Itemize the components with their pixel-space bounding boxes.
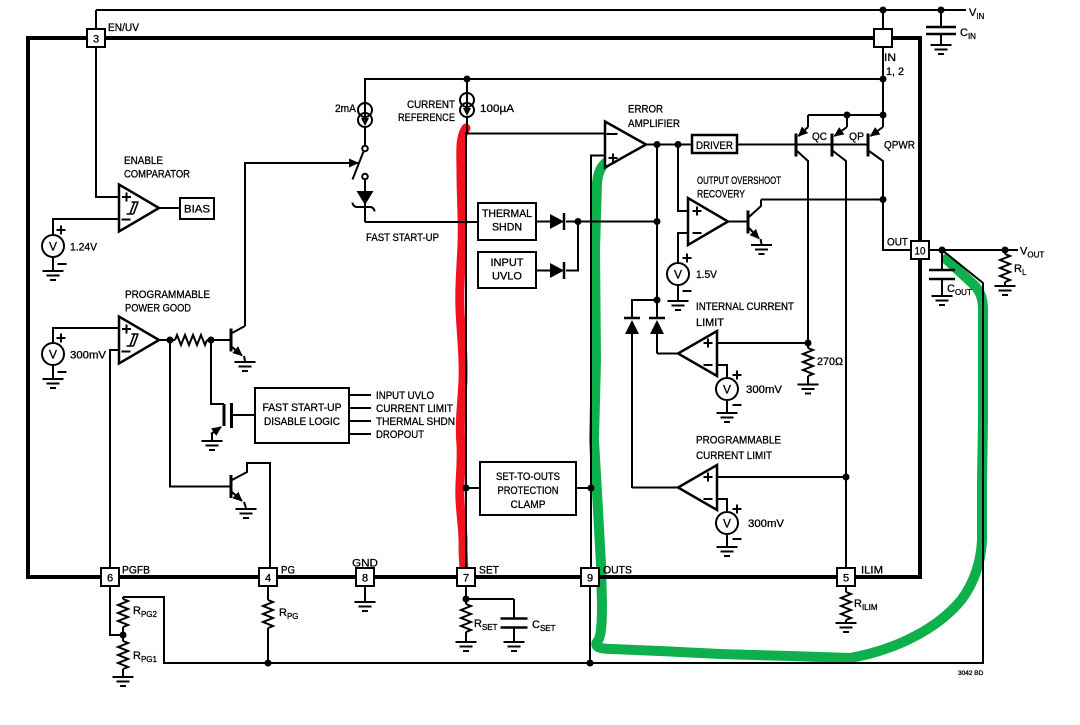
pin 9 OUTS bbox=[581, 568, 599, 586]
resistor RPG1 bbox=[118, 641, 128, 676]
svg-text:ERROR: ERROR bbox=[628, 104, 663, 116]
svg-text:7: 7 bbox=[463, 573, 469, 585]
pin IN 1,2 bbox=[874, 29, 892, 47]
wire PGFB sense to PG comparator minus input bbox=[110, 350, 119, 568]
wire error amp output to overshoot recovery plus input bbox=[678, 145, 688, 212]
ground CSET bbox=[504, 642, 525, 651]
ground V2 bbox=[43, 379, 64, 388]
wire schottky to thermal shdn block bbox=[365, 221, 478, 223]
ground V1 bbox=[43, 271, 64, 280]
ground Q2 emitter bbox=[236, 509, 257, 518]
IC outline border bbox=[28, 38, 920, 577]
svg-text:300mV: 300mV bbox=[748, 518, 785, 530]
svg-text:AMPLIFIER: AMPLIFIER bbox=[628, 118, 680, 130]
svg-text:INPUT UVLO: INPUT UVLO bbox=[376, 390, 434, 402]
svg-text:QC: QC bbox=[812, 131, 827, 143]
svg-text:BIAS: BIAS bbox=[184, 204, 210, 216]
block INPUT UVLO bbox=[478, 252, 536, 288]
wire clamp diode line bbox=[566, 221, 657, 223]
svg-text:9: 9 bbox=[587, 573, 593, 585]
svg-text:UVLO: UVLO bbox=[492, 271, 522, 283]
wire error amp output to driver bbox=[646, 144, 692, 146]
voltage source V4 300mV bbox=[716, 378, 738, 400]
svg-text:GND: GND bbox=[352, 558, 378, 570]
current source 100uA current reference bbox=[460, 79, 474, 117]
node RL junction bbox=[1002, 247, 1009, 254]
wire SET node vertical (100uA to pin 7) bbox=[466, 117, 467, 568]
svg-text:10: 10 bbox=[915, 246, 926, 258]
svg-text:2mA: 2mA bbox=[335, 103, 357, 115]
op-amp programmable current limit bbox=[678, 465, 717, 510]
ground M1 source bbox=[202, 441, 223, 450]
svg-text:1.24V: 1.24V bbox=[70, 242, 98, 254]
svg-text:EN/UV: EN/UV bbox=[108, 22, 140, 34]
node PGFB divider tap bbox=[120, 632, 127, 639]
svg-text:4: 4 bbox=[265, 573, 271, 585]
svg-text:IN: IN bbox=[884, 52, 896, 64]
diode D2 (thermal shdn) bbox=[536, 213, 564, 230]
voltage source V1 1.24V bbox=[42, 235, 64, 257]
transistor M1 (MOSFET, fast start-up disable) bbox=[211, 403, 255, 440]
svg-text:6: 6 bbox=[107, 573, 113, 585]
svg-text:DRIVER: DRIVER bbox=[696, 140, 733, 152]
transistor Q1 (NPN, PG pull) bbox=[231, 326, 245, 361]
ground RSET bbox=[456, 642, 477, 651]
wire PGFB pin to divider tap bbox=[110, 586, 123, 635]
svg-text:FAST START-UP: FAST START-UP bbox=[263, 402, 342, 414]
svg-text:1, 2: 1, 2 bbox=[886, 66, 904, 78]
transistor Q2 (NPN, PG open collector) bbox=[231, 463, 270, 568]
op-amp output overshoot recovery bbox=[688, 198, 728, 245]
capacitor CIN bbox=[926, 10, 956, 45]
wire logic output stub DROPOUT bbox=[349, 433, 371, 435]
diode D4 (clamp to internal current limit) bbox=[624, 318, 640, 488]
wire comparator output to BIAS bbox=[159, 207, 180, 209]
wire OUT pin to VOUT bbox=[929, 249, 1018, 251]
node PG resistor junction A bbox=[167, 337, 174, 344]
svg-text:270Ω: 270Ω bbox=[817, 356, 843, 368]
wire pin3 top stub bbox=[95, 10, 97, 29]
wire internal current limit minus to 300mV bbox=[717, 365, 727, 378]
node ILIM junction bbox=[843, 474, 850, 481]
resistor 270ohm bbox=[803, 343, 813, 384]
block DRIVER bbox=[692, 135, 737, 153]
svg-text:QPWR: QPWR bbox=[884, 140, 915, 152]
wire 300mV to PG comparator plus input bbox=[53, 328, 119, 343]
wire node down to M1 drain bbox=[211, 340, 224, 404]
svg-text:THERMAL: THERMAL bbox=[482, 208, 532, 220]
switch fast start-up bbox=[353, 146, 368, 180]
op-amp programmable power good comparator bbox=[119, 317, 159, 364]
wire IN vertical to QPWR emitter bbox=[882, 79, 884, 127]
svg-text:POWER GOOD: POWER GOOD bbox=[125, 303, 191, 315]
node SET clamp junction bbox=[463, 485, 470, 492]
svg-text:PGFB: PGFB bbox=[122, 565, 150, 577]
wire IN pin top stub bbox=[882, 10, 884, 29]
transistor Q3 (NPN, overshoot recovery) bbox=[748, 200, 762, 245]
wire 1.24V to comparator minus input bbox=[53, 219, 119, 235]
transistor QP (PNP) bbox=[832, 115, 847, 568]
pin 10 OUT bbox=[911, 241, 929, 259]
voltage source V5 300mV bbox=[716, 512, 738, 534]
svg-text:CURRENT: CURRENT bbox=[407, 99, 455, 111]
ground CIN bbox=[931, 45, 952, 54]
svg-text:LIMIT: LIMIT bbox=[696, 317, 724, 329]
wire resistor to Q1 base bbox=[207, 339, 230, 341]
ground 270ohm bbox=[798, 385, 819, 394]
wire 2mA to switch bbox=[364, 127, 366, 146]
svg-text:REFERENCE: REFERENCE bbox=[398, 112, 455, 124]
svg-text:QP: QP bbox=[849, 131, 864, 143]
svg-text:DISABLE LOGIC: DISABLE LOGIC bbox=[264, 416, 340, 428]
pin 5 ILIM bbox=[837, 568, 855, 586]
pin 6 PGFB bbox=[101, 568, 119, 586]
wire programmable current limit minus to 300mV bbox=[717, 499, 727, 512]
svg-text:OUT: OUT bbox=[887, 237, 908, 249]
svg-text:INTERNAL CURRENT: INTERNAL CURRENT bbox=[696, 301, 794, 313]
voltage source V3 1.5V bbox=[667, 263, 689, 285]
pin 8 GND bbox=[356, 568, 374, 586]
wire PG comparator output bbox=[159, 339, 175, 341]
wire programmable current limit output to D4 bbox=[632, 487, 678, 490]
node emitter rail QP junction bbox=[844, 112, 851, 119]
ground V4 bbox=[717, 413, 738, 422]
svg-text:8: 8 bbox=[362, 573, 368, 585]
node emitter rail QPWR junction bbox=[880, 112, 887, 119]
svg-text:OUTPUT OVERSHOOT: OUTPUT OVERSHOOT bbox=[697, 175, 781, 187]
node VIN/IN junction bbox=[880, 7, 887, 14]
wire pin3 down to enable comparator bbox=[96, 47, 119, 197]
ground Q1 emitter bbox=[235, 362, 256, 371]
wire programmable current limit plus input to ILIM node bbox=[717, 476, 846, 478]
ground pin8 GND bbox=[364, 586, 366, 601]
svg-text:SHDN: SHDN bbox=[492, 222, 522, 234]
node RSET/CSET junction bbox=[463, 596, 470, 603]
node OUTS bottom junction bbox=[587, 660, 594, 667]
svg-text:SET: SET bbox=[479, 565, 499, 577]
node PG resistor junction B bbox=[208, 337, 215, 344]
svg-text:CURRENT LIMIT: CURRENT LIMIT bbox=[696, 450, 772, 462]
capacitor CSET bbox=[466, 599, 528, 641]
svg-text:PG: PG bbox=[281, 565, 295, 577]
node error amp output junction B bbox=[675, 141, 682, 148]
wire logic output stub INPUT UVLO bbox=[349, 394, 371, 396]
wire OUTS pin to bottom sense rail bbox=[589, 586, 591, 663]
svg-text:100µA: 100µA bbox=[480, 103, 515, 115]
wire VIN top rail bbox=[96, 9, 966, 11]
op-amp error amplifier bbox=[605, 122, 646, 168]
block BIAS bbox=[180, 198, 214, 219]
resistor RPG bbox=[263, 586, 273, 663]
wire switch to schottky diode bbox=[364, 180, 366, 192]
svg-text:DROPOUT: DROPOUT bbox=[376, 429, 424, 441]
svg-text:OUTS: OUTS bbox=[603, 565, 632, 577]
wire Q3 collector to QPWR collector node bbox=[761, 199, 883, 201]
node 270ohm junction bbox=[805, 340, 812, 347]
wire IN pin bottom stub bbox=[882, 47, 884, 79]
svg-text:5: 5 bbox=[843, 573, 849, 585]
green marker highlight (OUTS sense path) bbox=[594, 159, 983, 658]
wire internal current limit plus input to 270 node bbox=[717, 342, 808, 344]
diode D5 (clamp to programmable current limit) bbox=[649, 300, 665, 354]
svg-text:ENABLE: ENABLE bbox=[124, 155, 163, 167]
node IN rail junction bbox=[880, 76, 887, 83]
pin 7 SET bbox=[457, 568, 475, 586]
wire OUTS vertical (error amp plus input to pin 9) bbox=[591, 156, 605, 569]
node VIN/CIN junction bbox=[938, 7, 945, 14]
resistor RPG2 bbox=[118, 597, 128, 641]
wire error amp output clamp vertical bbox=[656, 145, 658, 301]
svg-text:CLAMP: CLAMP bbox=[511, 499, 546, 511]
svg-text:INPUT: INPUT bbox=[491, 257, 524, 269]
diode D3 (input uvlo) bbox=[536, 222, 578, 280]
ground V5 bbox=[717, 547, 738, 556]
ground RPG1 bbox=[113, 677, 134, 686]
resistor RL bbox=[1000, 250, 1010, 285]
svg-text:3: 3 bbox=[93, 34, 99, 46]
current source 2mA bbox=[358, 103, 372, 127]
svg-text:300mV: 300mV bbox=[746, 384, 783, 396]
op-amp enable comparator bbox=[119, 185, 159, 232]
svg-text:CURRENT LIMIT: CURRENT LIMIT bbox=[376, 403, 453, 415]
svg-text:RECOVERY: RECOVERY bbox=[697, 189, 746, 201]
node RPG bottom junction bbox=[265, 660, 272, 667]
node clamp line junction bbox=[654, 218, 661, 225]
node COUT junction bbox=[939, 247, 946, 254]
svg-text:1.5V: 1.5V bbox=[696, 269, 718, 281]
wire SET node to error amp minus input bbox=[466, 133, 605, 135]
node OUTS clamp junction bbox=[588, 485, 595, 492]
block fast start-up disable logic bbox=[255, 388, 349, 443]
ground RILIM bbox=[836, 623, 857, 632]
ground V3 bbox=[668, 301, 689, 310]
wire QPWR collector to OUT pin bbox=[883, 200, 911, 251]
wire D5 to internal current limit output bbox=[657, 353, 678, 355]
wire logic output stub THERMAL SHDN bbox=[349, 420, 371, 422]
wire overshoot recovery minus to 1.5V bbox=[678, 233, 688, 263]
resistor RILIM bbox=[841, 586, 851, 622]
svg-text:PROGRAMMABLE: PROGRAMMABLE bbox=[125, 289, 210, 301]
transistor QC (PNP) bbox=[796, 115, 808, 343]
svg-text:PROGRAMMABLE: PROGRAMMABLE bbox=[696, 435, 781, 447]
wire OUTS sense from output node bbox=[123, 250, 983, 663]
block THERMAL SHDN bbox=[478, 203, 536, 240]
wire emitter rail QC QP QPWR bbox=[808, 114, 883, 116]
svg-text:300mV: 300mV bbox=[70, 350, 107, 362]
ground Q3 emitter bbox=[751, 245, 772, 254]
resistor (base resistor, PG output) bbox=[175, 335, 207, 345]
node clamp diode junction bbox=[575, 218, 582, 225]
red marker highlight (SET current path) bbox=[460, 128, 466, 571]
svg-text:ILIM: ILIM bbox=[861, 565, 883, 577]
wire node down to Q2 base bbox=[170, 340, 230, 487]
node internal diode junction bbox=[654, 297, 661, 304]
pin 3 EN/UV bbox=[87, 29, 105, 47]
node QPWR collector junction bbox=[880, 196, 887, 203]
pin 4 PG bbox=[259, 568, 277, 586]
svg-text:SET-TO-OUTS: SET-TO-OUTS bbox=[496, 471, 560, 483]
ground COUT bbox=[932, 296, 953, 305]
ground RL bbox=[995, 286, 1016, 295]
wire overshoot recovery output to Q3 base bbox=[728, 221, 747, 223]
capacitor COUT bbox=[929, 250, 955, 295]
svg-text:COMPARATOR: COMPARATOR bbox=[124, 169, 190, 181]
diode D1 schottky (fast start-up) bbox=[353, 191, 375, 222]
svg-text:THERMAL SHDN: THERMAL SHDN bbox=[376, 416, 455, 428]
wire logic output stub CURRENT LIMIT bbox=[349, 407, 371, 409]
svg-text:PROTECTION: PROTECTION bbox=[498, 485, 559, 497]
voltage source V2 300mV bbox=[42, 343, 64, 365]
wire clamp node to internal diodes bbox=[632, 300, 657, 317]
block SET-TO-OUTS protection clamp bbox=[466, 487, 480, 489]
node error amp output junction A bbox=[654, 141, 661, 148]
transistor QPWR (PNP power) bbox=[868, 127, 883, 200]
wire driver to output transistor bases bbox=[737, 144, 868, 146]
wire node to fast start-up switch control bbox=[245, 163, 358, 326]
op-amp internal current limit bbox=[678, 331, 717, 376]
svg-text:FAST START-UP: FAST START-UP bbox=[366, 232, 439, 244]
node 100uA rail junction bbox=[464, 76, 471, 83]
wire current source top rail bbox=[365, 79, 883, 103]
svg-text:3042 BD: 3042 BD bbox=[958, 670, 984, 677]
resistor RSET bbox=[461, 586, 471, 641]
